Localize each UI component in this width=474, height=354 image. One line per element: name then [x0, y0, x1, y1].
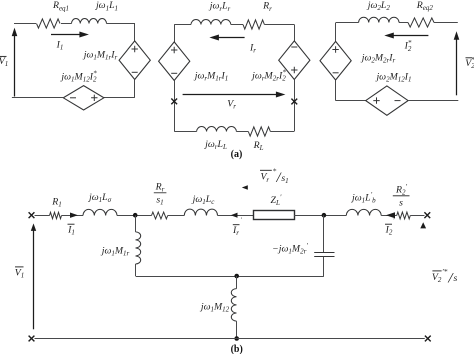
inductor jwrLL — [197, 127, 237, 132]
dependent source jwrM2rI2* — [279, 41, 310, 80]
inductor jwrLr — [191, 20, 231, 25]
voltage arrow V2* — [456, 38, 458, 96]
wire loop2 left top — [335, 23, 337, 42]
node 3 top — [234, 274, 239, 279]
label Vr*/s1 — [260, 169, 272, 171]
wire loop1 bottom right — [104, 97, 135, 99]
terminal x bottom-right — [425, 336, 431, 342]
voltage arrow Vr — [183, 94, 278, 96]
current arrow I1 — [51, 34, 81, 36]
impedance box ZL — [254, 211, 295, 220]
wire loop2 bottom left — [336, 100, 366, 102]
svg-text:jω1M12I2*: jω1M12I2* — [59, 70, 97, 84]
resistor RL — [248, 127, 270, 136]
label V2 prime star over s — [432, 270, 441, 272]
branch cap vertical bottom — [323, 257, 325, 276]
svg-text:jωrM2rI2*: jωrM2rI2* — [250, 69, 286, 83]
svg-text:s: s — [454, 273, 458, 284]
bottom rail wire — [35, 338, 425, 340]
wire middle right bottom — [294, 80, 296, 132]
capacitor -jw1M2r plates — [314, 252, 334, 254]
dependent source jw1M1rIr — [119, 41, 150, 80]
dependent source jw2M12I1 — [366, 86, 408, 115]
resistor Req1 — [37, 19, 61, 28]
wire loop2 top — [336, 22, 359, 24]
resistor R2/s — [397, 212, 411, 219]
wire b main 3 — [117, 215, 152, 217]
branch cap vertical top — [323, 215, 325, 252]
wire loop2 left bottom — [335, 80, 337, 101]
port mark x right — [291, 99, 297, 105]
wire b main 2 — [62, 215, 84, 217]
resistor Rr — [243, 20, 264, 29]
inductor jw1M12 vertical — [231, 289, 236, 321]
svg-text:′*: ′* — [442, 267, 448, 276]
wire loop1 bottom left — [12, 97, 63, 99]
svg-text:jωrLr: jωrLr — [208, 1, 231, 13]
dependent source jwrM1rI1 — [159, 42, 190, 81]
terminal x top-right — [424, 212, 430, 218]
node 1 — [133, 213, 138, 218]
port mark x left — [171, 99, 177, 105]
svg-text:jω1M1rIr: jω1M1rIr — [82, 50, 118, 62]
label Ir bar prime — [233, 224, 240, 226]
svg-text:s: s — [399, 198, 403, 209]
branch M12 vertical bottom — [236, 321, 238, 338]
inductor jw2L2 — [359, 17, 399, 22]
inductor jw1Lc — [184, 209, 217, 215]
wire b main 6 — [294, 215, 346, 217]
wire b main 5 — [218, 215, 254, 217]
current arrow I1bar — [70, 213, 78, 218]
branch M1r vertical bottom — [135, 264, 137, 276]
wire middle right top — [294, 25, 296, 42]
inductor jw1M1r vertical — [136, 232, 141, 264]
svg-text:jω2M2rIr: jω2M2rIr — [360, 53, 396, 65]
inductor jw1Lb prime — [346, 209, 381, 215]
label I1bar — [68, 223, 75, 225]
current arrow I2* — [392, 35, 429, 37]
voltage arrow V1 b — [33, 229, 35, 329]
label I2 bar star — [385, 223, 392, 225]
label V1 — [0, 55, 7, 57]
middle rail wire — [136, 276, 324, 278]
wire b main 4 — [168, 215, 185, 217]
node 3 bottom — [234, 336, 239, 341]
current arrow Ir — [217, 37, 245, 39]
resistor Req2 — [408, 18, 434, 27]
dependent source jw2M2rIr — [320, 41, 351, 80]
wire middle top — [174, 24, 191, 26]
wire loop1 right top — [134, 23, 136, 41]
svg-text:jω2M12I1: jω2M12I1 — [374, 72, 411, 84]
branch M1r vertical top — [135, 215, 137, 232]
svg-text:I2*: I2* — [404, 39, 412, 53]
resistor R1 — [50, 212, 62, 218]
wire middle left top — [174, 25, 176, 43]
wire load bottom — [174, 131, 196, 133]
svg-text:(b): (b) — [231, 344, 243, 354]
current arrow Ir bar — [231, 213, 238, 218]
arrowhead V2 up — [420, 222, 426, 228]
wire loop1 right bottom — [134, 80, 136, 98]
wire b main 8 — [410, 215, 424, 217]
branch M12 vertical top — [236, 276, 238, 289]
terminal x bottom-left — [29, 336, 35, 342]
svg-text:(a): (a) — [231, 149, 243, 160]
inductor jw1Lsigma — [83, 209, 117, 215]
wire middle left bottom — [174, 81, 176, 132]
svg-text:V2*: V2* — [465, 56, 474, 70]
wire b main 1 — [35, 215, 50, 217]
wire loop1 top — [14, 23, 36, 25]
dependent source jw1M12I2* — [63, 86, 104, 110]
inductor jw1L1 — [72, 19, 107, 24]
resistor Rr/s1 — [152, 212, 168, 219]
node 2 — [322, 213, 327, 218]
wire loop2 bottom right — [408, 100, 458, 102]
label V2* — [466, 57, 473, 59]
arrowhead Vr/s1 direction — [242, 185, 248, 190]
label V1 b — [15, 266, 24, 268]
voltage arrow V1 — [14, 34, 16, 96]
current arrow I2 bar — [386, 212, 395, 218]
wire b main 7 — [381, 215, 397, 217]
svg-text:jωrM1rI1: jωrM1rI1 — [193, 71, 229, 83]
terminal x top-left — [29, 212, 35, 218]
